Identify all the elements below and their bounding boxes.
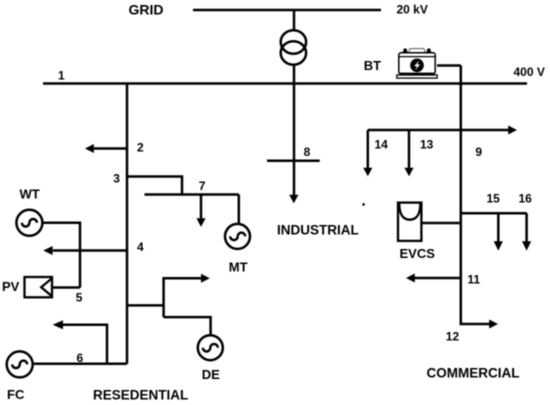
wire FC lead	[34, 363, 127, 366]
wire PV lead	[52, 286, 80, 289]
wire residential feeder	[126, 84, 129, 364]
svg-text:7: 7	[199, 179, 206, 193]
svg-text:DE: DE	[202, 367, 220, 382]
wire node 2 branch	[93, 147, 127, 150]
wire EVCS lead	[421, 222, 460, 225]
wire WT to junction	[44, 223, 81, 288]
arrow load node 2 left	[85, 144, 94, 153]
generator DE	[198, 335, 223, 360]
photovoltaic PV	[25, 277, 53, 297]
svg-text:WT: WT	[20, 187, 40, 202]
svg-text:5: 5	[76, 291, 83, 305]
battery BT icon	[397, 49, 437, 79]
svg-text:GRID: GRID	[129, 1, 164, 17]
svg-text:MT: MT	[229, 260, 248, 275]
svg-text:4: 4	[137, 240, 144, 254]
svg-text:COMMERCIAL: COMMERCIAL	[427, 365, 520, 380]
svg-text:INDUSTRIAL: INDUSTRIAL	[277, 223, 359, 238]
arrow load node 14 down	[363, 168, 372, 177]
svg-text:9: 9	[475, 145, 482, 159]
generator WT	[16, 210, 42, 236]
svg-text:EVCS: EVCS	[400, 246, 436, 261]
bus tick node 8	[267, 160, 320, 163]
arrow load node 13 down	[404, 168, 413, 177]
EVCS icon	[398, 203, 421, 241]
wire transformer primary lead	[293, 10, 296, 30]
arrow load node 4 left	[43, 246, 52, 255]
wire node 9 lateral	[368, 129, 509, 132]
bus 1 (400 V)	[43, 82, 527, 85]
arrow load INDUSTRIAL down	[289, 195, 298, 204]
svg-text:RESEDENTIAL: RESEDENTIAL	[93, 388, 188, 403]
wire DE branch from feeder	[127, 304, 164, 307]
wire node 7 lateral	[145, 193, 239, 196]
svg-text:1: 1	[58, 69, 65, 83]
transformer T1	[281, 30, 306, 64]
arrow load node 11 left	[406, 274, 415, 283]
wire load drop node 14	[367, 130, 370, 169]
svg-text:14: 14	[375, 137, 389, 151]
wire node 12 branch	[461, 322, 490, 325]
arrow load node 6 left	[53, 320, 63, 329]
wire node 11 branch	[414, 277, 461, 280]
wire load drop node 15	[497, 213, 500, 242]
svg-text:16: 16	[519, 191, 533, 205]
svg-text:2: 2	[137, 140, 144, 154]
svg-text:13: 13	[420, 137, 434, 151]
wire BT lead	[437, 64, 461, 67]
svg-text:8: 8	[304, 145, 311, 159]
wire node 4 branch	[53, 249, 127, 252]
svg-text:15: 15	[487, 191, 501, 205]
wire node 15/16 lateral	[461, 212, 527, 215]
generator MT	[225, 224, 250, 249]
arrow load node 7 down	[196, 218, 205, 227]
wire transformer secondary lead / industrial feeder 8	[293, 64, 296, 196]
svg-text:20 kV: 20 kV	[397, 3, 428, 17]
wire load arrow stem at DE branch	[164, 277, 202, 280]
generator FC	[7, 351, 33, 377]
arrow load node 16 down	[522, 241, 531, 250]
arrow load DE branch right	[201, 274, 210, 283]
wire DE lateral	[164, 317, 211, 335]
svg-text:FC: FC	[7, 387, 25, 402]
svg-text:12: 12	[446, 330, 460, 344]
svg-text:PV: PV	[2, 279, 20, 294]
arrow load node 12 right	[489, 320, 498, 329]
wire commercial feeder	[460, 66, 463, 325]
svg-text:11: 11	[467, 272, 480, 286]
wire load drop node 13	[408, 130, 411, 169]
junction dot	[362, 203, 365, 206]
wire DE branch vertical	[162, 277, 165, 317]
arrow load node 15 down	[494, 241, 503, 250]
svg-text:400 V: 400 V	[514, 65, 545, 79]
svg-text:BT: BT	[364, 58, 381, 73]
wire node 6 lateral up	[63, 325, 108, 364]
wire load drop node 16	[525, 213, 528, 242]
wire MT lead	[238, 195, 241, 224]
svg-text:3: 3	[113, 171, 120, 185]
wire grid top bus	[193, 9, 381, 12]
wire load drop at node 7	[200, 195, 203, 220]
arrow node 9 right	[508, 126, 517, 135]
wire node 3 branch	[127, 177, 182, 195]
